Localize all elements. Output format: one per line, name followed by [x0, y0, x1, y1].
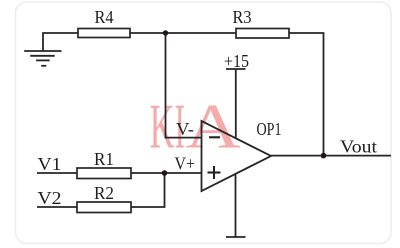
svg-text:Vout: Vout	[340, 137, 377, 157]
svg-text:OP1: OP1	[257, 119, 282, 139]
svg-text:V+: V+	[175, 154, 196, 174]
svg-text:V-: V-	[176, 119, 194, 139]
svg-text:R4: R4	[95, 7, 114, 27]
svg-text:R3: R3	[233, 7, 252, 27]
svg-text:+15: +15	[224, 51, 249, 71]
svg-text:R1: R1	[94, 149, 114, 169]
svg-text:V2: V2	[38, 188, 62, 208]
svg-text:K: K	[150, 91, 175, 161]
svg-text:V1: V1	[38, 154, 62, 174]
svg-text:R2: R2	[94, 183, 114, 203]
